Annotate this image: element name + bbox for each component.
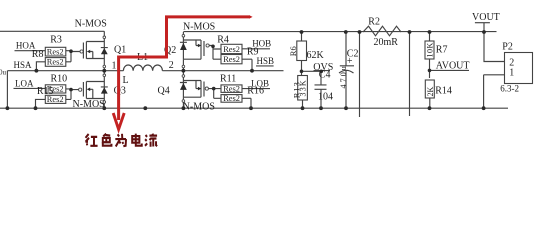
svg-text:6.3-2: 6.3-2 <box>500 84 519 94</box>
svg-text:R8: R8 <box>32 49 44 60</box>
svg-text:470u: 470u <box>339 64 348 88</box>
svg-text:33K: 33K <box>299 79 308 96</box>
svg-text:Q1: Q1 <box>114 44 126 55</box>
svg-text:62K: 62K <box>307 50 325 61</box>
svg-text:Res2: Res2 <box>223 94 240 103</box>
svg-text:Res2: Res2 <box>223 55 240 64</box>
svg-text:Res2: Res2 <box>47 85 64 94</box>
svg-text:AVOUT: AVOUT <box>436 60 470 71</box>
svg-text:R3: R3 <box>50 35 62 46</box>
svg-text:R10: R10 <box>51 74 68 85</box>
svg-text:Q4: Q4 <box>158 86 170 97</box>
svg-text:R6: R6 <box>288 46 298 56</box>
svg-text:2K: 2K <box>426 87 435 97</box>
svg-text:HSA: HSA <box>14 60 33 70</box>
svg-text:C4: C4 <box>319 69 331 80</box>
svg-text:104: 104 <box>318 91 333 102</box>
svg-text:L: L <box>123 75 129 86</box>
svg-text:N-MOS: N-MOS <box>183 22 215 33</box>
svg-text:LOA: LOA <box>15 78 34 88</box>
svg-text:Res2: Res2 <box>223 45 240 54</box>
svg-text:20mR: 20mR <box>374 37 399 48</box>
svg-text:Res2: Res2 <box>47 47 64 56</box>
svg-text:N-MOS: N-MOS <box>73 99 105 110</box>
svg-text:R2: R2 <box>368 16 380 27</box>
svg-text:0u: 0u <box>0 68 7 76</box>
svg-text:10K: 10K <box>426 42 435 57</box>
svg-text:R7: R7 <box>436 45 448 56</box>
svg-text:1: 1 <box>509 68 514 79</box>
svg-text:R4: R4 <box>217 34 229 45</box>
svg-text:N-MOS: N-MOS <box>183 101 215 112</box>
svg-text:1: 1 <box>112 60 117 71</box>
svg-text:R16: R16 <box>247 85 264 96</box>
svg-text:HSB: HSB <box>257 56 275 66</box>
svg-text:Res2: Res2 <box>47 58 64 67</box>
svg-text:R14: R14 <box>435 86 452 97</box>
svg-text:2: 2 <box>169 60 174 71</box>
svg-text:Res2: Res2 <box>47 95 64 104</box>
svg-text:P2: P2 <box>502 42 513 53</box>
svg-text:R11: R11 <box>220 73 236 84</box>
svg-text:Res2: Res2 <box>223 84 240 93</box>
svg-text:N-MOS: N-MOS <box>75 18 107 29</box>
svg-text:HOB: HOB <box>252 39 271 49</box>
svg-text:VOUT: VOUT <box>472 12 500 23</box>
